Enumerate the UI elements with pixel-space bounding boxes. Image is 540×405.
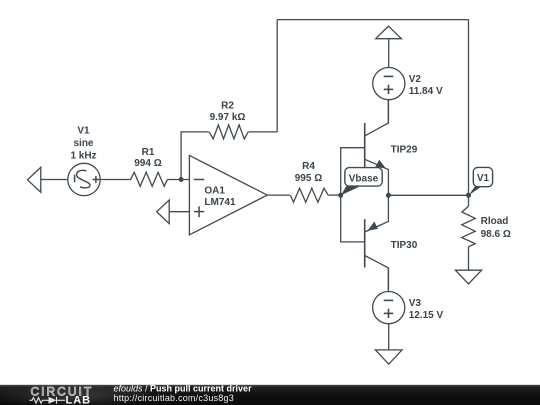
wire VCC flag to V2 [388, 39, 390, 68]
svg-text:98.6 Ω: 98.6 Ω [481, 229, 511, 240]
wire feedback top horizontal [277, 19, 468, 21]
svg-text:sine: sine [73, 138, 93, 149]
transistor Q2 TIP30 (PNP) [365, 195, 389, 289]
svg-text:OA1: OA1 [204, 186, 225, 197]
resistor R1 [131, 172, 168, 186]
wire R1 to inverting input [167, 179, 189, 181]
wire ground to V1 [41, 179, 68, 181]
node output V1 junction [466, 193, 471, 198]
svg-text:V2: V2 [409, 74, 422, 85]
voltage source V2 [373, 68, 405, 100]
wire base node to TIP30 base [341, 195, 365, 242]
svg-text:V1: V1 [77, 125, 90, 136]
wire R2 right to corner [249, 131, 278, 133]
voltage source V1 (sine) [68, 163, 100, 195]
power flag VCC above V2 [376, 26, 402, 39]
wire op-amp output to R4 [267, 194, 290, 196]
wire feedback right vertical down to output node [468, 20, 470, 196]
wire R4 to base node [328, 194, 341, 196]
svg-text:R1: R1 [142, 147, 155, 158]
wire TIP30 collector to V3 [387, 268, 389, 292]
wire node up to R2 [181, 132, 209, 180]
svg-text:http://circuitlab.com/c3us8g3: http://circuitlab.com/c3us8g3 [114, 393, 234, 403]
callout Vbase [341, 168, 382, 196]
svg-text:11.84 V: 11.84 V [409, 86, 443, 97]
wire feedback vertical left [276, 20, 278, 132]
wire V3 to ground [388, 324, 390, 350]
svg-text:R2: R2 [221, 101, 234, 112]
wire base node to TIP29 base [341, 148, 365, 196]
svg-text:LAB: LAB [66, 395, 92, 405]
transistor Q1 TIP29 (NPN) [365, 100, 389, 196]
wire ground to non-inverting input [169, 211, 189, 213]
svg-text:1 kHz: 1 kHz [70, 151, 96, 162]
node Vbase junction [338, 193, 343, 198]
logo resistor-diode symbol [30, 397, 66, 404]
svg-text:995 Ω: 995 Ω [295, 173, 322, 184]
node emitter junction [386, 193, 391, 198]
ground GND1 (input source return) [28, 167, 41, 192]
svg-text:V1: V1 [477, 173, 490, 184]
wire V1 to R1 [100, 179, 131, 181]
wire emitter node to output node [388, 194, 468, 196]
svg-text:V3: V3 [409, 298, 422, 309]
resistor R4 [290, 188, 328, 202]
svg-text:994 Ω: 994 Ω [134, 158, 161, 169]
svg-text:TIP30: TIP30 [391, 240, 418, 251]
svg-text:LM741: LM741 [204, 197, 236, 208]
svg-text:Rload: Rload [481, 216, 509, 227]
ground GND4 below Rload [455, 270, 481, 284]
op-amp OA1 [189, 155, 267, 234]
node junction inverting input [179, 177, 184, 182]
resistor Rload [462, 195, 475, 270]
wire V2 to TIP29 collector [387, 100, 389, 123]
voltage source V3 [373, 292, 405, 324]
svg-text:9.97 kΩ: 9.97 kΩ [210, 112, 246, 123]
svg-text:12.15 V: 12.15 V [409, 310, 444, 321]
footer bar background [0, 385, 540, 405]
ground GND3 below V3 [375, 350, 402, 364]
svg-text:R4: R4 [302, 161, 315, 172]
callout V1 output node [469, 167, 493, 195]
ground GND2 (non-inverting input) [157, 200, 170, 224]
svg-text:TIP29: TIP29 [391, 144, 418, 155]
resistor R2 [209, 125, 248, 139]
svg-text:Vbase: Vbase [349, 173, 379, 184]
